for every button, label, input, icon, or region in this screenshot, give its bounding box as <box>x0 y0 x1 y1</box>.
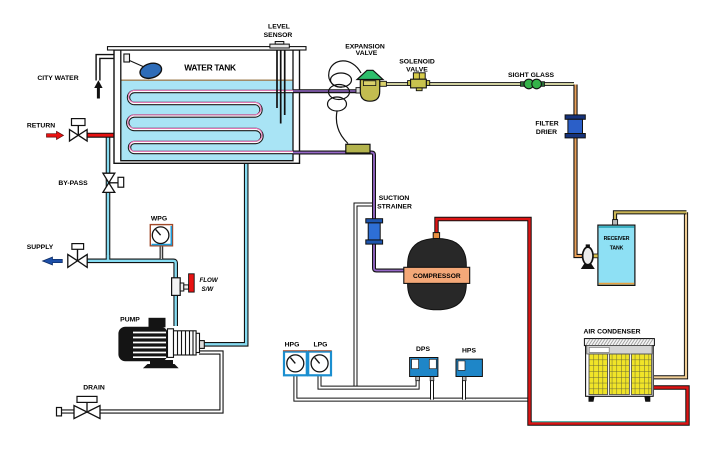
flow switch <box>172 274 195 296</box>
wire: receiver tank top run (olive-tan) <box>615 212 687 220</box>
wire: supply water line to flow switch and pump inlet <box>87 261 176 326</box>
gauge HPG <box>283 351 307 376</box>
pressure switch DPS <box>410 358 438 381</box>
svg-text:COMPRESSOR: COMPRESSOR <box>413 273 461 280</box>
tank lid <box>108 47 307 50</box>
supply flow arrow (blue) <box>43 257 63 265</box>
wire: tank bottom outlet down to pump discharge connector <box>202 161 246 344</box>
wire: hot gas discharge line compressor to condenser (red) <box>437 219 688 424</box>
svg-text:FILTER: FILTER <box>535 120 558 127</box>
evaporator coil serpentine <box>128 90 360 152</box>
svg-text:BY-PASS: BY-PASS <box>58 180 88 187</box>
valve: return <box>70 119 88 141</box>
compressor <box>404 233 470 310</box>
svg-text:DRIER: DRIER <box>536 129 557 136</box>
svg-text:SUPPLY: SUPPLY <box>27 244 54 251</box>
svg-text:AIR CONDENSER: AIR CONDENSER <box>583 328 640 335</box>
water fill <box>121 80 293 161</box>
float ball <box>138 61 163 81</box>
gauge LPG <box>308 351 332 376</box>
wire: liquid line solenoid - sight glass (pale yellow) <box>386 82 574 86</box>
svg-text:WPG: WPG <box>151 216 167 223</box>
svg-text:HPS: HPS <box>462 348 476 355</box>
wire: suction line tank to strainer to compressor (purple) <box>293 153 408 271</box>
svg-text:S/W: S/W <box>202 286 215 293</box>
wire: LPG sensing line tap off suction riser <box>356 205 375 388</box>
pump <box>118 318 204 369</box>
junction: by-pass tee into supply line <box>107 255 109 262</box>
expansion valve <box>356 70 386 101</box>
svg-text:RECEIVER: RECEIVER <box>604 236 630 242</box>
valve: supply <box>68 244 87 268</box>
wire: city water supply pipe <box>98 57 124 81</box>
level sensor head <box>270 42 289 49</box>
capillary tube coil <box>328 61 362 144</box>
svg-text:SUCTION: SUCTION <box>379 195 410 202</box>
svg-text:SOLENOID: SOLENOID <box>399 58 435 65</box>
wire: liquid line into tank coil from expansion valve (purple) <box>293 89 361 93</box>
wire: return water line into tank (red) <box>86 133 123 138</box>
svg-text:SIGHT GLASS: SIGHT GLASS <box>508 72 555 79</box>
suction strainer <box>366 219 383 244</box>
air condenser <box>584 339 654 402</box>
svg-text:RETURN: RETURN <box>27 123 55 130</box>
water tank outer shell <box>114 50 300 163</box>
svg-text:SENSOR: SENSOR <box>264 32 293 39</box>
refrigerant distributor <box>346 144 370 153</box>
filter drier <box>565 115 585 138</box>
svg-text:VALVE: VALVE <box>406 66 428 73</box>
svg-text:CITY WATER: CITY WATER <box>37 75 78 82</box>
float valve <box>124 54 143 67</box>
svg-text:LPG: LPG <box>314 342 328 349</box>
water tank inner wall <box>121 50 293 161</box>
valve: by-pass <box>103 173 124 192</box>
return flow arrow (red) <box>47 131 64 139</box>
wire: filter drier drop line to receiver capsule valve (orange) <box>576 85 583 257</box>
receiver tank <box>598 220 635 286</box>
svg-text:TANK: TANK <box>610 246 624 252</box>
svg-text:STRAINER: STRAINER <box>377 204 412 211</box>
svg-text:LEVEL: LEVEL <box>268 23 290 30</box>
pressure switch HPS <box>456 359 482 381</box>
level sensor probes <box>277 50 285 124</box>
svg-text:DRAIN: DRAIN <box>83 385 105 392</box>
wire: WPG gauge stem <box>160 246 164 259</box>
city water flow arrow <box>94 80 102 98</box>
svg-text:DPS: DPS <box>416 346 430 353</box>
sight glass <box>521 79 545 89</box>
wire: LPG gauge to DPS low-pressure bus <box>320 375 418 388</box>
svg-text:HPG: HPG <box>285 342 300 349</box>
wire: pump to drain grey line <box>101 353 222 412</box>
wire: HPG / DPS / HPS high-pressure bus <box>295 375 529 400</box>
solenoid valve <box>408 73 430 91</box>
receiver inlet capsule valve <box>581 244 598 269</box>
svg-text:FLOW: FLOW <box>200 277 219 284</box>
svg-text:WATER TANK: WATER TANK <box>184 62 236 72</box>
svg-text:PUMP: PUMP <box>120 316 140 323</box>
valve: drain <box>74 396 100 418</box>
wire: liquid line condenser to receiver (tan) <box>654 212 686 377</box>
gauge WPG <box>150 225 172 246</box>
wire: drain outlet stub <box>57 408 75 416</box>
wire: by-pass water line (cyan) <box>106 136 111 261</box>
svg-text:VALVE: VALVE <box>356 50 378 57</box>
